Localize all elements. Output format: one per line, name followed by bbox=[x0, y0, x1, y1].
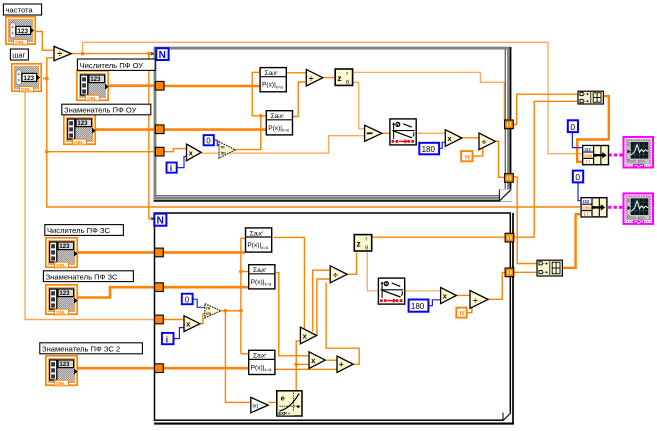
exp node bbox=[277, 391, 302, 416]
control Знаменатель ПФ ЗС 2 bbox=[46, 356, 78, 386]
wire mult3 out to divide2 bottom bbox=[317, 279, 330, 336]
wire divideA out to z1 bbox=[323, 77, 334, 79]
junction exp net bbox=[294, 363, 298, 367]
subtract bbox=[365, 125, 382, 141]
svg-text:Знаменатель ПФ ЗС 2: Знаменатель ПФ ЗС 2 bbox=[42, 344, 120, 353]
abs node bbox=[251, 397, 268, 412]
waveform graph 2 bbox=[624, 193, 654, 224]
svg-text:÷: ÷ bbox=[333, 270, 338, 280]
wire multL out to divide4 bbox=[462, 137, 479, 139]
wire Знаменатель ПФ ЗС to L2T2 bbox=[78, 287, 156, 297]
polynomial evaluation node5 bbox=[249, 350, 275, 374]
junction tri1 net bbox=[259, 114, 263, 118]
wire T_B2 out to build2 in2 bbox=[513, 271, 537, 273]
svg-text:π: π bbox=[459, 309, 465, 318]
polynomial evaluation node2 bbox=[266, 111, 292, 135]
wire L2T1 to node3 coeffs bbox=[163, 251, 245, 254]
wire node1 out to divideA bbox=[286, 72, 306, 74]
svg-text:Знаменатель ПФ ЗС: Знаменатель ПФ ЗС bbox=[46, 272, 118, 281]
for-loop 2 resize corner bbox=[503, 413, 511, 421]
svg-text:i: i bbox=[166, 334, 168, 344]
wire шаг output bbox=[43, 78, 47, 80]
wire build1 out to bundle1 array bbox=[577, 96, 609, 162]
mult3 bbox=[300, 327, 316, 344]
wire z2 r to T_A2 bbox=[372, 236, 505, 238]
tunnel T1 bbox=[155, 81, 164, 90]
wire Числитель ПФ ОУ to T1 bbox=[109, 84, 156, 87]
bundle 2 bbox=[581, 198, 607, 217]
tunnel T2 bbox=[155, 125, 164, 134]
wire left margin to loop2 tunnel T3 bbox=[25, 92, 156, 320]
multL bbox=[445, 130, 462, 147]
wire 0 const to tri2 bbox=[193, 299, 205, 307]
junction шаг bbox=[45, 77, 49, 81]
svg-text:e: e bbox=[281, 393, 285, 402]
wire T2 to node2 coeffs bbox=[163, 128, 266, 131]
wire T1 to node1 coeffs bbox=[163, 85, 260, 88]
unwrap phase 2 bbox=[378, 278, 404, 304]
wire шаг down long to bundle2 dx bbox=[47, 79, 580, 208]
svg-text:|x|: |x| bbox=[252, 404, 258, 410]
pi const 2 bbox=[456, 308, 466, 318]
junction s-net c bbox=[239, 270, 243, 274]
wire s-net down to abs bbox=[225, 311, 250, 403]
wire i1 to mult1 bbox=[177, 156, 187, 167]
svg-text:EXP •: EXP • bbox=[278, 411, 290, 416]
divide3 bbox=[470, 291, 488, 309]
wire s-net vertical to poly tops bbox=[241, 238, 245, 353]
label шаг bbox=[10, 49, 28, 60]
wire bundle2 to graph2 bbox=[608, 206, 622, 209]
wire abs to exp bbox=[268, 401, 276, 403]
svg-text:N: N bbox=[157, 216, 164, 227]
wire z1 theta to subtract bbox=[353, 82, 365, 129]
wire exp out net bbox=[296, 341, 300, 391]
wire mult2 out to tri2 bbox=[200, 314, 205, 324]
wire шаг up to divide1 bottom bbox=[47, 58, 54, 79]
wire mult3 out to divide2 top bbox=[313, 270, 331, 331]
tunnel L2T1 bbox=[155, 248, 164, 257]
mult5 bbox=[441, 287, 457, 303]
unwrap phase 1 bbox=[390, 119, 416, 145]
wire unwrap2 out to mult5 bbox=[404, 290, 441, 292]
control Знаменатель ПФ ЗС bbox=[46, 285, 78, 315]
tunnel T_B2 indexing bbox=[505, 268, 514, 277]
svg-text:÷: ÷ bbox=[57, 49, 62, 59]
for-loop 2 border bbox=[154, 213, 514, 424]
pi const 1 bbox=[461, 151, 472, 161]
control Числитель ПФ ЗС bbox=[46, 238, 78, 268]
wire T3 to mult1 bbox=[163, 149, 187, 152]
wire tri1 out rise to poly nodes bbox=[236, 116, 267, 150]
svg-text:re: re bbox=[221, 145, 226, 150]
wire add out to divide2 bbox=[326, 283, 359, 365]
wire z1 r to T_A1 bbox=[353, 72, 504, 120]
mult2 bbox=[184, 316, 200, 332]
svg-text:частота: частота bbox=[6, 6, 34, 15]
wire 0 const to bundle1 i32 bbox=[572, 133, 582, 148]
wire z2 theta to unwrap2 bbox=[367, 252, 378, 291]
wire divide1 out to N1 bbox=[72, 53, 155, 55]
for-loop 1 resize corner bbox=[499, 189, 511, 201]
wire pi2 to divide3 bbox=[467, 308, 472, 313]
wire node4 out to mult4 bbox=[276, 273, 309, 356]
bundle 1 bbox=[583, 146, 609, 165]
tunnel T_A2 indexing bbox=[505, 233, 514, 242]
svg-text:0: 0 bbox=[575, 172, 580, 182]
svg-text:π: π bbox=[464, 152, 470, 161]
control шаг bbox=[12, 64, 41, 92]
label Числитель ПФ ЗС bbox=[45, 225, 124, 236]
wire 0 const to tri1 bbox=[214, 140, 219, 145]
label Знаменатель ПФ ЗС 2 bbox=[40, 343, 143, 354]
tunnel L2T3 bbox=[155, 315, 164, 324]
svg-text:Знаменатель ПФ ОУ: Знаменатель ПФ ОУ bbox=[64, 106, 137, 115]
svg-text:Числитель ПФ ОУ: Числитель ПФ ОУ bbox=[80, 61, 144, 70]
junction N-net B bbox=[147, 52, 151, 56]
polynomial evaluation node4 bbox=[249, 265, 275, 289]
junction шаг-T3 bbox=[45, 150, 49, 154]
wire tri2 out s-net bbox=[221, 310, 241, 312]
wire T_A1 out to build1 in1 bbox=[513, 94, 578, 124]
junction s-net b bbox=[239, 309, 243, 313]
label Знаменатель ПФ ЗС bbox=[43, 271, 133, 282]
wire node2 out to divideA bottom bbox=[293, 82, 307, 117]
divide1 bbox=[54, 46, 71, 60]
wire Знаменатель ПФ ЗС 2 to L2T4 bbox=[78, 367, 156, 370]
wire N-net up and over to bundle1 dx bbox=[83, 42, 583, 153]
tunnel L2T2 bbox=[155, 283, 164, 292]
svg-text:+: + bbox=[339, 360, 344, 369]
svg-text:180: 180 bbox=[422, 145, 436, 154]
label Числитель ПФ ОУ bbox=[77, 59, 155, 70]
wire i2 to mult2 bbox=[174, 328, 184, 339]
wire mult4 out to add bbox=[327, 359, 337, 361]
wire L2T3 to mult2 bbox=[163, 319, 184, 321]
wire divide2 out to z2 bbox=[347, 253, 356, 275]
numeric const 180 (loop1) bbox=[419, 143, 439, 155]
svg-text:÷: ÷ bbox=[482, 137, 487, 147]
complex-to-polar z1 bbox=[335, 69, 352, 86]
wire T_A2 out to build1 in2 bbox=[513, 101, 578, 237]
svg-text:i: i bbox=[170, 163, 172, 173]
wire 180 to multL bbox=[440, 142, 446, 148]
svg-text:im: im bbox=[206, 311, 211, 316]
polynomial evaluation node1 bbox=[260, 68, 286, 92]
numeric const 0 (loop1) bbox=[204, 135, 214, 146]
wire Числитель ПФ ЗС to L2T1 bbox=[78, 251, 156, 254]
divide4 bbox=[479, 133, 495, 150]
wire mult5 out to divide3 bbox=[457, 294, 470, 296]
control Числитель ПФ ОУ bbox=[77, 71, 109, 101]
control частота bbox=[6, 17, 35, 45]
numeric const 0 (loop2) bbox=[182, 294, 193, 305]
wire node5 out to add bbox=[274, 368, 337, 370]
loop1 count terminal N1 bbox=[156, 48, 168, 61]
tunnel T_A1 indexing bbox=[505, 120, 514, 129]
mult4 bbox=[309, 352, 325, 369]
junction s-net a bbox=[224, 309, 228, 313]
iteration terminal i2 bbox=[162, 333, 174, 344]
build array 2 bbox=[537, 260, 562, 276]
wire N-net down to N2 bbox=[149, 54, 154, 219]
polynomial evaluation node3 bbox=[246, 228, 272, 252]
wire build2 out to bundle2 array bbox=[562, 214, 580, 268]
svg-text:180: 180 bbox=[411, 302, 425, 311]
loop2 count terminal N2 bbox=[154, 214, 166, 227]
build array 1 bbox=[578, 91, 603, 104]
wire mult1 out long to subtract bbox=[201, 136, 364, 154]
wire шаг branch to loop1 tunnel T3 bbox=[47, 151, 156, 153]
re-im to complex tri1 bbox=[219, 142, 235, 158]
svg-text:шаг: шаг bbox=[12, 51, 25, 60]
add bbox=[337, 356, 353, 372]
mult1 bbox=[187, 144, 202, 161]
label частота bbox=[3, 4, 41, 15]
wire частота to divide1 bbox=[36, 32, 54, 51]
divide2 bbox=[330, 266, 347, 283]
svg-text:0: 0 bbox=[185, 295, 190, 304]
wire bundle1 to graph1 bbox=[608, 154, 622, 157]
wire L2T4 to node5 coeffs bbox=[163, 367, 248, 370]
svg-text:N: N bbox=[159, 50, 166, 61]
tunnel T_B1 indexing bbox=[505, 174, 514, 183]
svg-text:÷: ÷ bbox=[309, 73, 314, 83]
divideA loop1 bbox=[306, 69, 323, 86]
re-im to complex tri2 bbox=[205, 304, 221, 318]
numeric const 180 (loop2) bbox=[409, 300, 429, 312]
waveform graph 1 bbox=[624, 137, 654, 168]
svg-text:re: re bbox=[206, 306, 211, 311]
wire divide3 out to T_B2 bbox=[488, 272, 505, 299]
tunnel T3 bbox=[155, 147, 164, 156]
wires-layer bbox=[25, 32, 623, 403]
for-loop 1 border bbox=[154, 47, 512, 202]
wire divide4 out to T_B1 bbox=[496, 141, 505, 177]
wire Знаменатель ПФ ОУ to T2 bbox=[96, 128, 156, 131]
svg-text:Числитель ПФ ЗС: Числитель ПФ ЗС bbox=[47, 226, 110, 235]
wire 180-2 to mult5 bbox=[429, 300, 441, 306]
svg-text:0: 0 bbox=[206, 137, 211, 146]
complex-to-polar z2 bbox=[354, 235, 371, 252]
wire node3 out to mult3 bbox=[274, 237, 305, 330]
tunnel L2T4 bbox=[155, 364, 164, 373]
wire T_B1 out down to build2 in1 bbox=[513, 177, 537, 264]
control Знаменатель ПФ ОУ bbox=[64, 115, 96, 145]
const 0 bundle1 bbox=[568, 120, 578, 132]
wire unwrap1 out to multL bbox=[417, 132, 446, 134]
const 0 bundle2 bbox=[573, 171, 583, 183]
svg-text:im: im bbox=[221, 151, 226, 156]
svg-text:0: 0 bbox=[570, 122, 575, 132]
wire pi1 to divide4 bbox=[473, 149, 483, 156]
wire subtract out to unwrap1 bbox=[382, 132, 389, 134]
wire L2T2 to node4 coeffs bbox=[163, 286, 248, 289]
label Знаменатель ПФ ОУ bbox=[62, 104, 151, 115]
iteration terminal i1 bbox=[167, 163, 177, 174]
structures-layer bbox=[154, 47, 514, 424]
junction N-net A bbox=[81, 52, 85, 56]
wire 0 const to bundle2 i32 bbox=[578, 182, 580, 200]
svg-text:÷: ÷ bbox=[473, 295, 478, 305]
